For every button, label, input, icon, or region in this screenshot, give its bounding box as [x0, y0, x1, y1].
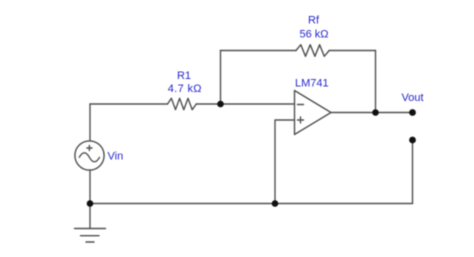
junction: source / ground node — [87, 200, 94, 207]
wire: bottom rail — [90, 203, 413, 205]
op-amp U1 LM741 triangle — [295, 91, 332, 135]
resistor R1 4.7k zigzag — [168, 98, 197, 109]
wire: op-amp output to Vout terminal — [331, 112, 413, 114]
junction: output / feedback node — [372, 109, 379, 116]
svg-text:56 kΩ: 56 kΩ — [299, 29, 328, 41]
wire: input rail from source to R1 — [90, 103, 168, 105]
wire: source bottom to ground node — [89, 170, 91, 204]
svg-text:Vout: Vout — [401, 92, 423, 104]
terminal: Vout upper — [409, 109, 416, 116]
wire: right riser from bottom rail to lower terminal — [412, 140, 414, 204]
svg-text:Vin: Vin — [108, 151, 124, 163]
op-amp plus symbol — [298, 117, 304, 123]
wire: top rail right segment from Rf — [329, 50, 375, 52]
AC source plus polarity mark — [87, 146, 92, 151]
wire: R1 to op-amp inverting input — [196, 103, 294, 105]
AC source Vin circle — [75, 141, 104, 170]
resistor Rf 56k zigzag — [296, 45, 329, 57]
wire: feedback left vertical (node A up) — [220, 51, 222, 105]
svg-text:Rf: Rf — [308, 15, 320, 27]
junction: non-inverting branch on bottom rail — [272, 200, 279, 207]
wire: top rail left segment to Rf — [221, 50, 297, 52]
svg-text:LM741: LM741 — [295, 78, 329, 90]
svg-text:R1: R1 — [177, 70, 191, 82]
AC source sine wave — [79, 153, 99, 162]
ground — [89, 204, 91, 229]
junction: R1 / feedback node — [217, 101, 224, 108]
op-amp minus symbol — [298, 104, 304, 106]
svg-text:4.7 kΩ: 4.7 kΩ — [168, 83, 202, 95]
terminal: Vout lower — [409, 137, 416, 144]
wire: non-inverting input branch — [275, 120, 295, 204]
wire: feedback right vertical down to output node — [375, 51, 377, 113]
wire: left vertical from input rail to source top — [89, 104, 91, 141]
